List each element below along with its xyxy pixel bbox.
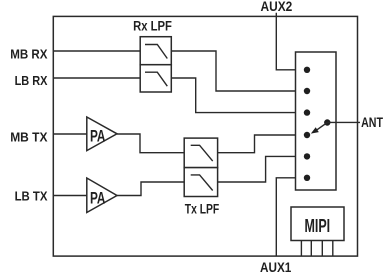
svg-text:AUX2: AUX2 xyxy=(261,0,293,14)
label Tx LPF xyxy=(185,201,220,216)
wire Tx mid-band filter to switch xyxy=(218,135,307,153)
wire MB RX input xyxy=(53,50,140,52)
port label AUX2 xyxy=(261,0,293,14)
filter Rx LPF low-band xyxy=(140,65,171,92)
svg-text:Rx LPF: Rx LPF xyxy=(133,19,172,34)
label Rx LPF xyxy=(133,19,172,34)
switch arm with arrowhead xyxy=(311,123,328,134)
wire AUX2 to switch xyxy=(276,13,307,70)
power amplifier PA2 xyxy=(87,178,117,213)
wire PA1 to Tx LPF xyxy=(117,134,184,153)
filter Tx LPF mid-band xyxy=(184,138,217,168)
wire AUX1 to switch xyxy=(276,178,307,256)
svg-text:PA: PA xyxy=(90,189,106,208)
wire LB RX input xyxy=(53,77,140,79)
wire PA2 to Tx LPF xyxy=(117,182,184,196)
MIPI pin 3 xyxy=(321,241,323,257)
filter Tx LPF low-band xyxy=(184,168,217,197)
wire Rx low-band filter to switch xyxy=(171,78,307,113)
svg-text:ANT: ANT xyxy=(361,115,383,130)
module outline xyxy=(53,16,357,256)
svg-text:LB RX: LB RX xyxy=(15,73,48,88)
wire ANT xyxy=(327,121,360,123)
switch throw node 6 (AUX1) xyxy=(304,175,310,181)
wire Rx mid-band filter to switch xyxy=(171,51,307,91)
switch throw node 1 (AUX2) xyxy=(304,67,310,73)
svg-text:LB TX: LB TX xyxy=(15,189,48,204)
port label MB RX xyxy=(10,47,48,62)
port label AUX1 xyxy=(260,259,291,274)
power amplifier PA1 xyxy=(87,117,117,151)
port label ANT xyxy=(361,115,383,130)
svg-text:MB TX: MB TX xyxy=(10,130,48,145)
wire LB TX input xyxy=(53,195,87,197)
svg-text:PA: PA xyxy=(90,127,106,146)
switch throw node 5 (Tx LB) xyxy=(304,153,310,159)
svg-text:MIPI: MIPI xyxy=(304,216,330,236)
MIPI interface block xyxy=(291,207,344,241)
svg-text:AUX1: AUX1 xyxy=(260,259,291,274)
MIPI pin 1 xyxy=(300,241,302,257)
switch pole node xyxy=(324,119,330,125)
port label LB TX xyxy=(15,189,48,204)
switch throw node 2 (Rx MB) xyxy=(304,88,310,94)
switch throw node 4 (Tx MB) xyxy=(304,132,310,138)
switch throw node 3 (Rx LB) xyxy=(304,109,310,115)
wire MB TX input xyxy=(53,133,87,135)
MIPI pin 4 xyxy=(332,241,334,257)
svg-text:MB RX: MB RX xyxy=(10,47,48,62)
port label LB RX xyxy=(15,73,48,88)
filter Rx LPF mid-band xyxy=(140,37,171,65)
wire Tx low-band filter to switch xyxy=(218,156,307,182)
antenna switch SW1 xyxy=(296,52,337,190)
svg-text:Tx LPF: Tx LPF xyxy=(185,201,220,216)
port label MB TX xyxy=(10,130,48,145)
MIPI pin 2 xyxy=(310,241,312,257)
